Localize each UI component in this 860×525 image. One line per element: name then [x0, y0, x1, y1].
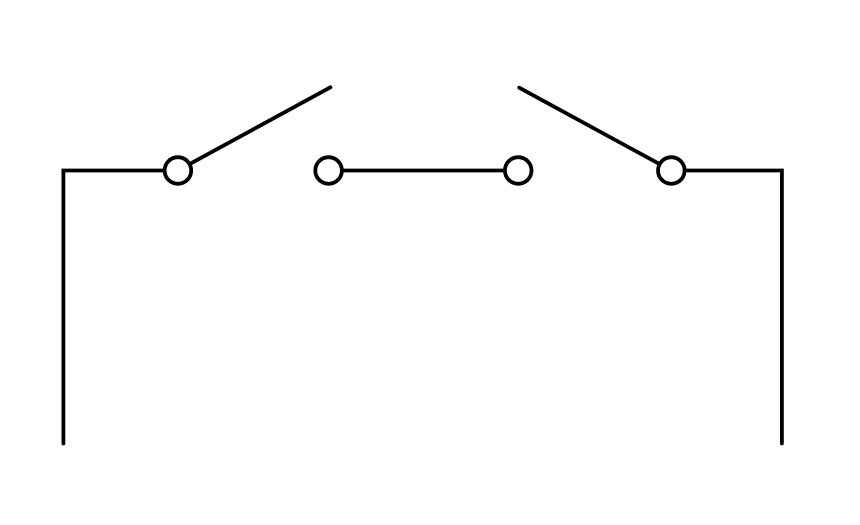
- switch SW2 pole terminal: [658, 157, 685, 184]
- node B terminal (middle-right contact): [505, 157, 532, 184]
- switch SW1 pole terminal: [165, 157, 192, 184]
- wire right L (horizontal from SW2 pole + vertical riser): [685, 171, 782, 444]
- wire left L (vertical riser + horizontal to SW1 pole): [63, 171, 164, 444]
- wire between middle contacts: [342, 169, 505, 173]
- switch SW1 arm (open, up-right): [190, 87, 331, 164]
- switch SW2 arm (open, up-left): [519, 88, 659, 164]
- node A terminal (middle-left contact): [315, 157, 342, 184]
